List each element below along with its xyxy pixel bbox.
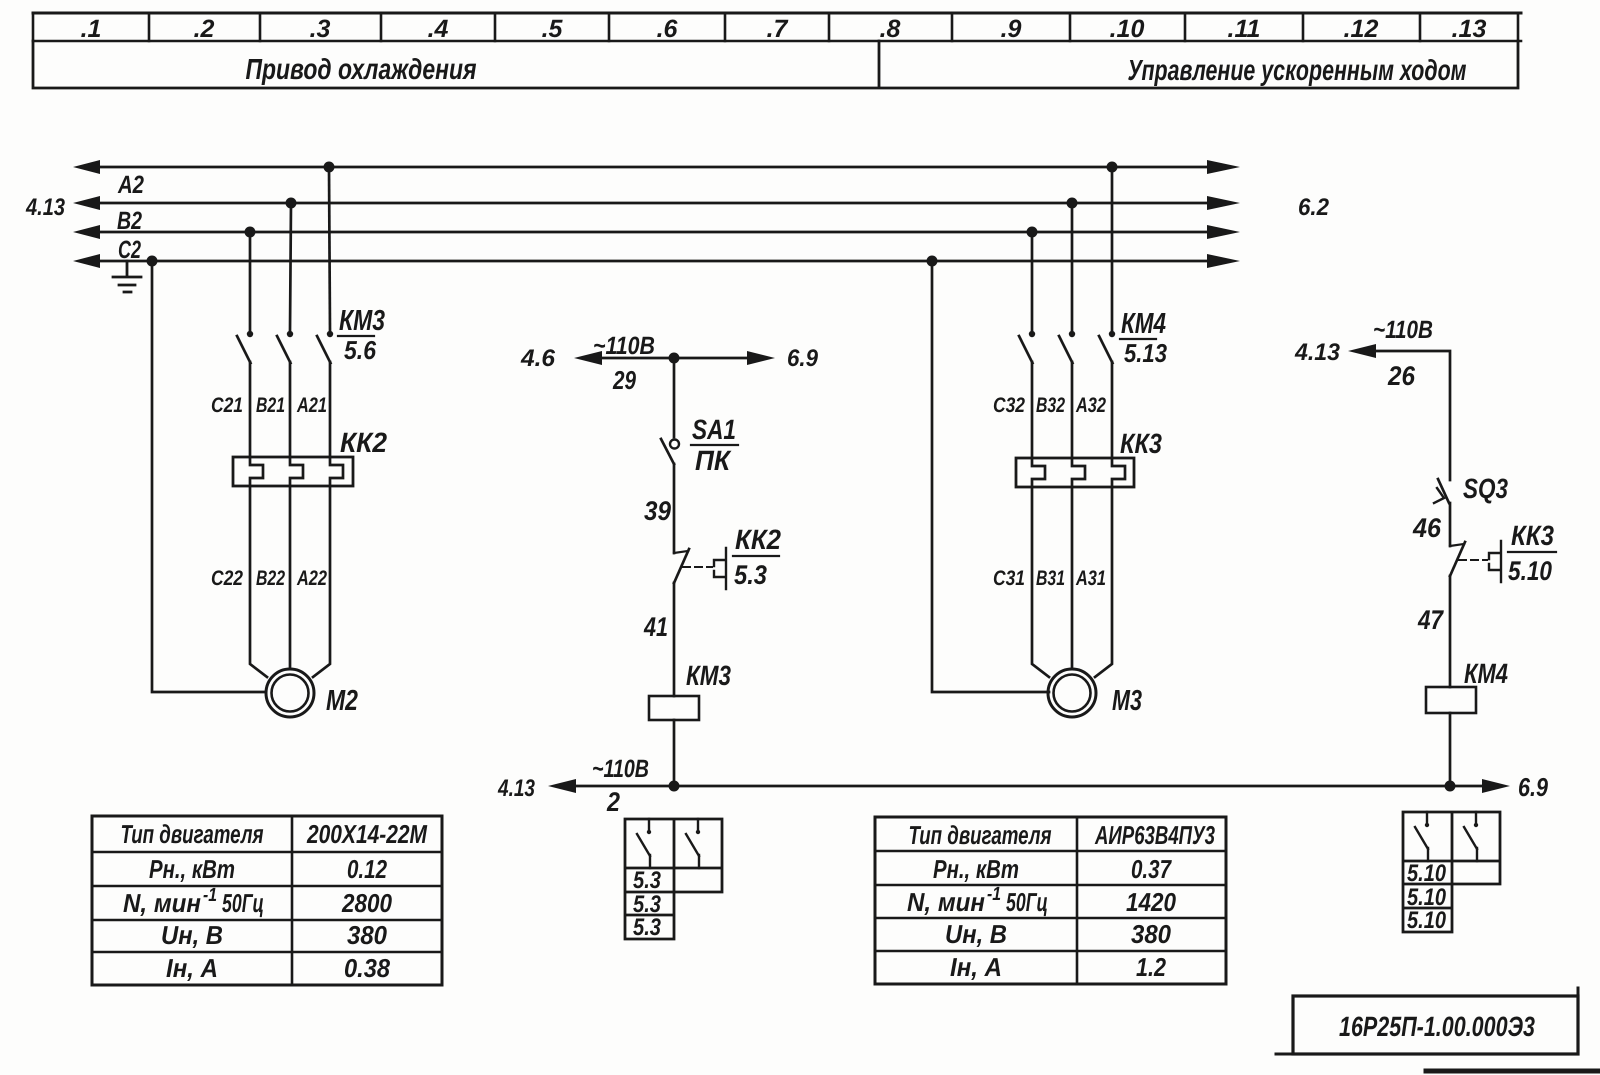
svg-text:2800: 2800	[341, 888, 392, 918]
svg-text:Uн, В: Uн, В	[945, 919, 1007, 949]
svg-text:50Гц: 50Гц	[1006, 887, 1048, 917]
svg-text:5.3: 5.3	[734, 560, 767, 590]
svg-text:.5: .5	[542, 15, 564, 43]
wire A2 drop to KM3 pole 3	[329, 167, 330, 331]
contactor KM4 pole 2 contact	[1069, 331, 1075, 337]
left arrow to sheet 4.6	[574, 351, 602, 365]
contactor KM4 pole 1 contact	[1029, 331, 1035, 337]
KM4 usage: main contact symbol 2	[1476, 812, 1477, 861]
svg-text:46: 46	[1412, 513, 1442, 543]
svg-text:Тип двигателя: Тип двигателя	[909, 820, 1052, 850]
svg-text:В21: В21	[256, 394, 285, 417]
node N/M3 junction	[927, 256, 938, 267]
svg-text:М3: М3	[1112, 685, 1142, 717]
svg-text:А21: А21	[296, 394, 327, 417]
KK2 heater pole 3 with wire to motor	[313, 362, 343, 677]
KK2 release bracket	[714, 548, 726, 589]
svg-text:4.6: 4.6	[520, 345, 556, 372]
bus B2 wire	[96, 202, 1210, 205]
svg-text:ПК: ПК	[695, 445, 732, 476]
svg-text:N, мин: N, мин	[907, 887, 985, 917]
svg-text:47: 47	[1417, 605, 1444, 635]
bus B2 right arrow	[1207, 196, 1240, 210]
svg-text:В2: В2	[117, 207, 142, 235]
svg-text:380: 380	[1131, 919, 1171, 949]
svg-text:.10: .10	[1110, 15, 1145, 43]
svg-text:С31: С31	[993, 567, 1025, 590]
wire coil KM3 to control return	[673, 720, 676, 786]
svg-text:380: 380	[347, 920, 387, 950]
control feed line ~110V wire 26	[1372, 351, 1450, 480]
wire 47 KK3 to coil KM4	[1449, 576, 1452, 687]
frame line left of title block	[1276, 1053, 1293, 1056]
svg-text:С22: С22	[211, 567, 243, 590]
svg-text:41: 41	[643, 612, 668, 642]
contactor KM3 pole 1 contact	[247, 331, 253, 337]
svg-text:В32: В32	[1036, 394, 1065, 417]
title block frame	[1293, 996, 1578, 1054]
node B2/KM3 junction	[286, 198, 297, 209]
svg-text:АИР63В4ПУ3: АИР63В4ПУ3	[1094, 820, 1215, 850]
node C2/KM3 junction	[245, 227, 256, 238]
svg-text:39: 39	[644, 496, 671, 526]
svg-text:.2: .2	[194, 15, 215, 43]
control feed line ~110V wire 29	[598, 357, 750, 360]
motor data table M2	[92, 816, 442, 985]
svg-text:С21: С21	[211, 394, 243, 417]
svg-text:В31: В31	[1036, 567, 1065, 590]
svg-text:А31: А31	[1075, 567, 1106, 590]
svg-text:Рн., кВт: Рн., кВт	[933, 854, 1019, 884]
wire junction to SA1	[673, 358, 676, 437]
svg-text:~110В: ~110В	[592, 755, 649, 783]
KM4 usage: main contact symbol 1	[1427, 812, 1428, 861]
svg-text:А2: А2	[117, 171, 144, 199]
bus N right arrow	[1207, 254, 1240, 268]
svg-text:.6: .6	[657, 15, 679, 43]
wire B2 drop to KM4 pole 2	[1071, 203, 1074, 331]
motor M2	[266, 669, 314, 717]
bus B2 left arrow	[73, 196, 100, 210]
contactor KM3 pole 2 contact	[287, 331, 293, 337]
svg-text:1420: 1420	[1126, 887, 1176, 917]
KM3 usage: main contact symbol 1	[649, 819, 650, 868]
bus N left arrow	[73, 254, 100, 268]
svg-text:-1: -1	[203, 885, 217, 906]
svg-text:.8: .8	[880, 15, 901, 43]
wire 39 SA1 to KK2 contact	[673, 464, 676, 553]
left arrow to sheet 4.13	[1348, 344, 1376, 358]
svg-text:5.6: 5.6	[344, 335, 376, 365]
node B2/KM4 junction	[1067, 198, 1078, 209]
svg-text:М2: М2	[326, 685, 358, 717]
svg-text:.11: .11	[1228, 15, 1261, 43]
svg-text:16Р25П-1.00.000Э3: 16Р25П-1.00.000Э3	[1339, 1011, 1535, 1042]
thermal NC contact KK3 (cross-ref 5.10)	[1450, 544, 1464, 546]
svg-text:200Х14-22М: 200Х14-22М	[306, 819, 428, 849]
svg-text:КМ4: КМ4	[1121, 308, 1166, 340]
svg-text:С32: С32	[993, 394, 1025, 417]
node coil KM4 return junction	[1445, 781, 1456, 792]
node N/M2 junction	[147, 256, 158, 267]
bottom frame line segment	[1426, 1069, 1600, 1074]
svg-text:.12: .12	[1344, 15, 1379, 43]
KK3 heater pole 2 with wire to motor	[1072, 362, 1085, 669]
ground symbol	[113, 261, 141, 292]
svg-text:5.3: 5.3	[633, 914, 662, 941]
svg-text:Управление ускоренным ходом: Управление ускоренным ходом	[1128, 55, 1467, 87]
svg-text:Iн, А: Iн, А	[166, 953, 218, 983]
bus C2 wire	[96, 231, 1210, 234]
left arrow to sheet 4.13	[548, 779, 576, 793]
contact usage table of KM4	[1403, 812, 1500, 932]
motor data table M3	[875, 817, 1226, 984]
bus A2 wire	[96, 166, 1210, 169]
coil KM3	[649, 696, 699, 720]
switch SA1 (ПК)	[670, 440, 679, 449]
svg-text:5.10: 5.10	[1508, 556, 1552, 586]
svg-text:КМ3: КМ3	[339, 305, 385, 337]
svg-text:~110В: ~110В	[593, 332, 655, 360]
svg-text:2: 2	[606, 787, 620, 817]
svg-text:КК2: КК2	[340, 427, 387, 458]
svg-text:КК2: КК2	[735, 524, 781, 555]
wire N to motor M3 bypass	[932, 261, 1049, 692]
svg-text:1.2: 1.2	[1136, 952, 1166, 982]
contactor KM3 pole 3 contact	[327, 331, 333, 337]
node C2/KM4 junction	[1027, 227, 1038, 238]
KK2 heater pole 2 with wire to motor	[290, 362, 303, 669]
KK3 trip linkage dashed line	[1459, 559, 1487, 561]
wire A2 drop to KM4 pole 3	[1111, 167, 1114, 331]
bus N wire	[96, 260, 1210, 263]
function band frame	[33, 41, 1518, 88]
svg-text:.13: .13	[1452, 15, 1487, 43]
svg-text:-1: -1	[987, 884, 1001, 905]
svg-text:5.13: 5.13	[1124, 338, 1167, 368]
svg-text:N, мин: N, мин	[123, 888, 201, 918]
bus A2 right arrow	[1207, 160, 1240, 174]
svg-text:6.9: 6.9	[787, 345, 819, 372]
svg-text:.3: .3	[310, 15, 331, 43]
column ruler ticks	[33, 13, 1518, 41]
wire coil KM4 to control return	[1449, 713, 1452, 786]
bus C2 left arrow	[73, 225, 100, 239]
svg-text:КМ4: КМ4	[1464, 658, 1508, 689]
svg-text:50Гц: 50Гц	[222, 888, 264, 918]
thermal relay KK2 heater box	[233, 457, 353, 486]
svg-text:~110В: ~110В	[1373, 316, 1433, 344]
svg-text:Iн, А: Iн, А	[950, 952, 1002, 982]
svg-text:4.13: 4.13	[25, 194, 65, 221]
svg-text:Привод охлаждения: Привод охлаждения	[246, 54, 477, 86]
KK3 heater pole 3 with wire to motor	[1095, 362, 1125, 677]
svg-text:5.3: 5.3	[633, 867, 662, 894]
wire C2 drop to KM3 pole 1	[249, 232, 252, 331]
svg-text:6.9: 6.9	[1518, 772, 1548, 802]
thermal relay KK3 heater box	[1016, 458, 1134, 487]
svg-text:4.13: 4.13	[1294, 339, 1341, 366]
wire 41 KK2 to coil KM3	[673, 583, 676, 696]
KK2 trip linkage dashed line	[683, 566, 712, 568]
svg-text:КМ3: КМ3	[686, 660, 731, 691]
svg-text:КК3: КК3	[1511, 520, 1554, 551]
svg-text:КК3: КК3	[1120, 428, 1162, 459]
control return line ~110V wire 2	[572, 785, 1484, 788]
wire B2 drop to KM3 pole 2	[290, 203, 291, 331]
right arrow to sheet 6.9	[1482, 779, 1510, 793]
svg-text:6.2: 6.2	[1298, 194, 1330, 221]
svg-text:Рн., кВт: Рн., кВт	[149, 854, 235, 884]
svg-text:29: 29	[612, 365, 636, 395]
wire C2 drop to KM4 pole 1	[1031, 232, 1034, 331]
svg-text:Uн, В: Uн, В	[161, 920, 223, 950]
svg-text:SQ3: SQ3	[1463, 473, 1508, 504]
limit switch SQ3	[1438, 479, 1449, 503]
svg-text:0.37: 0.37	[1131, 854, 1172, 884]
svg-text:.7: .7	[767, 15, 789, 43]
svg-text:В22: В22	[256, 567, 285, 590]
coil KM4	[1426, 687, 1476, 713]
column ruler bottom border	[33, 40, 1521, 43]
svg-text:А32: А32	[1075, 394, 1106, 417]
svg-text:4.13: 4.13	[497, 775, 535, 802]
KK3 heater pole 1 with wire to motor	[1032, 362, 1049, 677]
contactor KM4 pole 3 contact	[1109, 331, 1115, 337]
node coil KM3 return junction	[669, 781, 680, 792]
svg-text:.4: .4	[428, 15, 449, 43]
node A2/KM4 junction	[1107, 162, 1118, 173]
wire N to motor M2 bypass	[152, 261, 266, 692]
svg-text:5.10: 5.10	[1407, 860, 1447, 887]
contact usage table of KM3	[625, 819, 722, 939]
svg-text:.9: .9	[1001, 15, 1022, 43]
column ruler top border	[33, 12, 1521, 15]
svg-text:.1: .1	[81, 15, 102, 43]
thermal NC contact KK2 (cross-ref 5.3)	[674, 551, 688, 553]
bus A2 left arrow	[73, 160, 100, 174]
svg-text:5.10: 5.10	[1407, 907, 1447, 934]
svg-text:А22: А22	[296, 567, 327, 590]
bus C2 right arrow	[1207, 225, 1240, 239]
svg-text:SА1: SА1	[692, 414, 736, 445]
node A2/KM3 junction	[324, 162, 335, 173]
svg-text:26: 26	[1387, 361, 1416, 391]
svg-text:С2: С2	[118, 236, 141, 264]
wire 46 SQ3 to KK3 contact	[1449, 503, 1452, 546]
KK3 release bracket	[1489, 541, 1501, 582]
node SA1 feed junction	[669, 353, 680, 364]
svg-text:Тип двигателя: Тип двигателя	[121, 819, 264, 849]
frame right edge above title block	[1577, 988, 1580, 996]
motor M3	[1048, 669, 1096, 717]
right arrow to sheet 6.9	[747, 351, 775, 365]
svg-text:0.38: 0.38	[344, 953, 390, 983]
KK2 heater pole 1 with wire to motor	[250, 362, 267, 677]
svg-text:0.12: 0.12	[347, 854, 387, 884]
KM3 usage: main contact symbol 2	[698, 819, 699, 868]
